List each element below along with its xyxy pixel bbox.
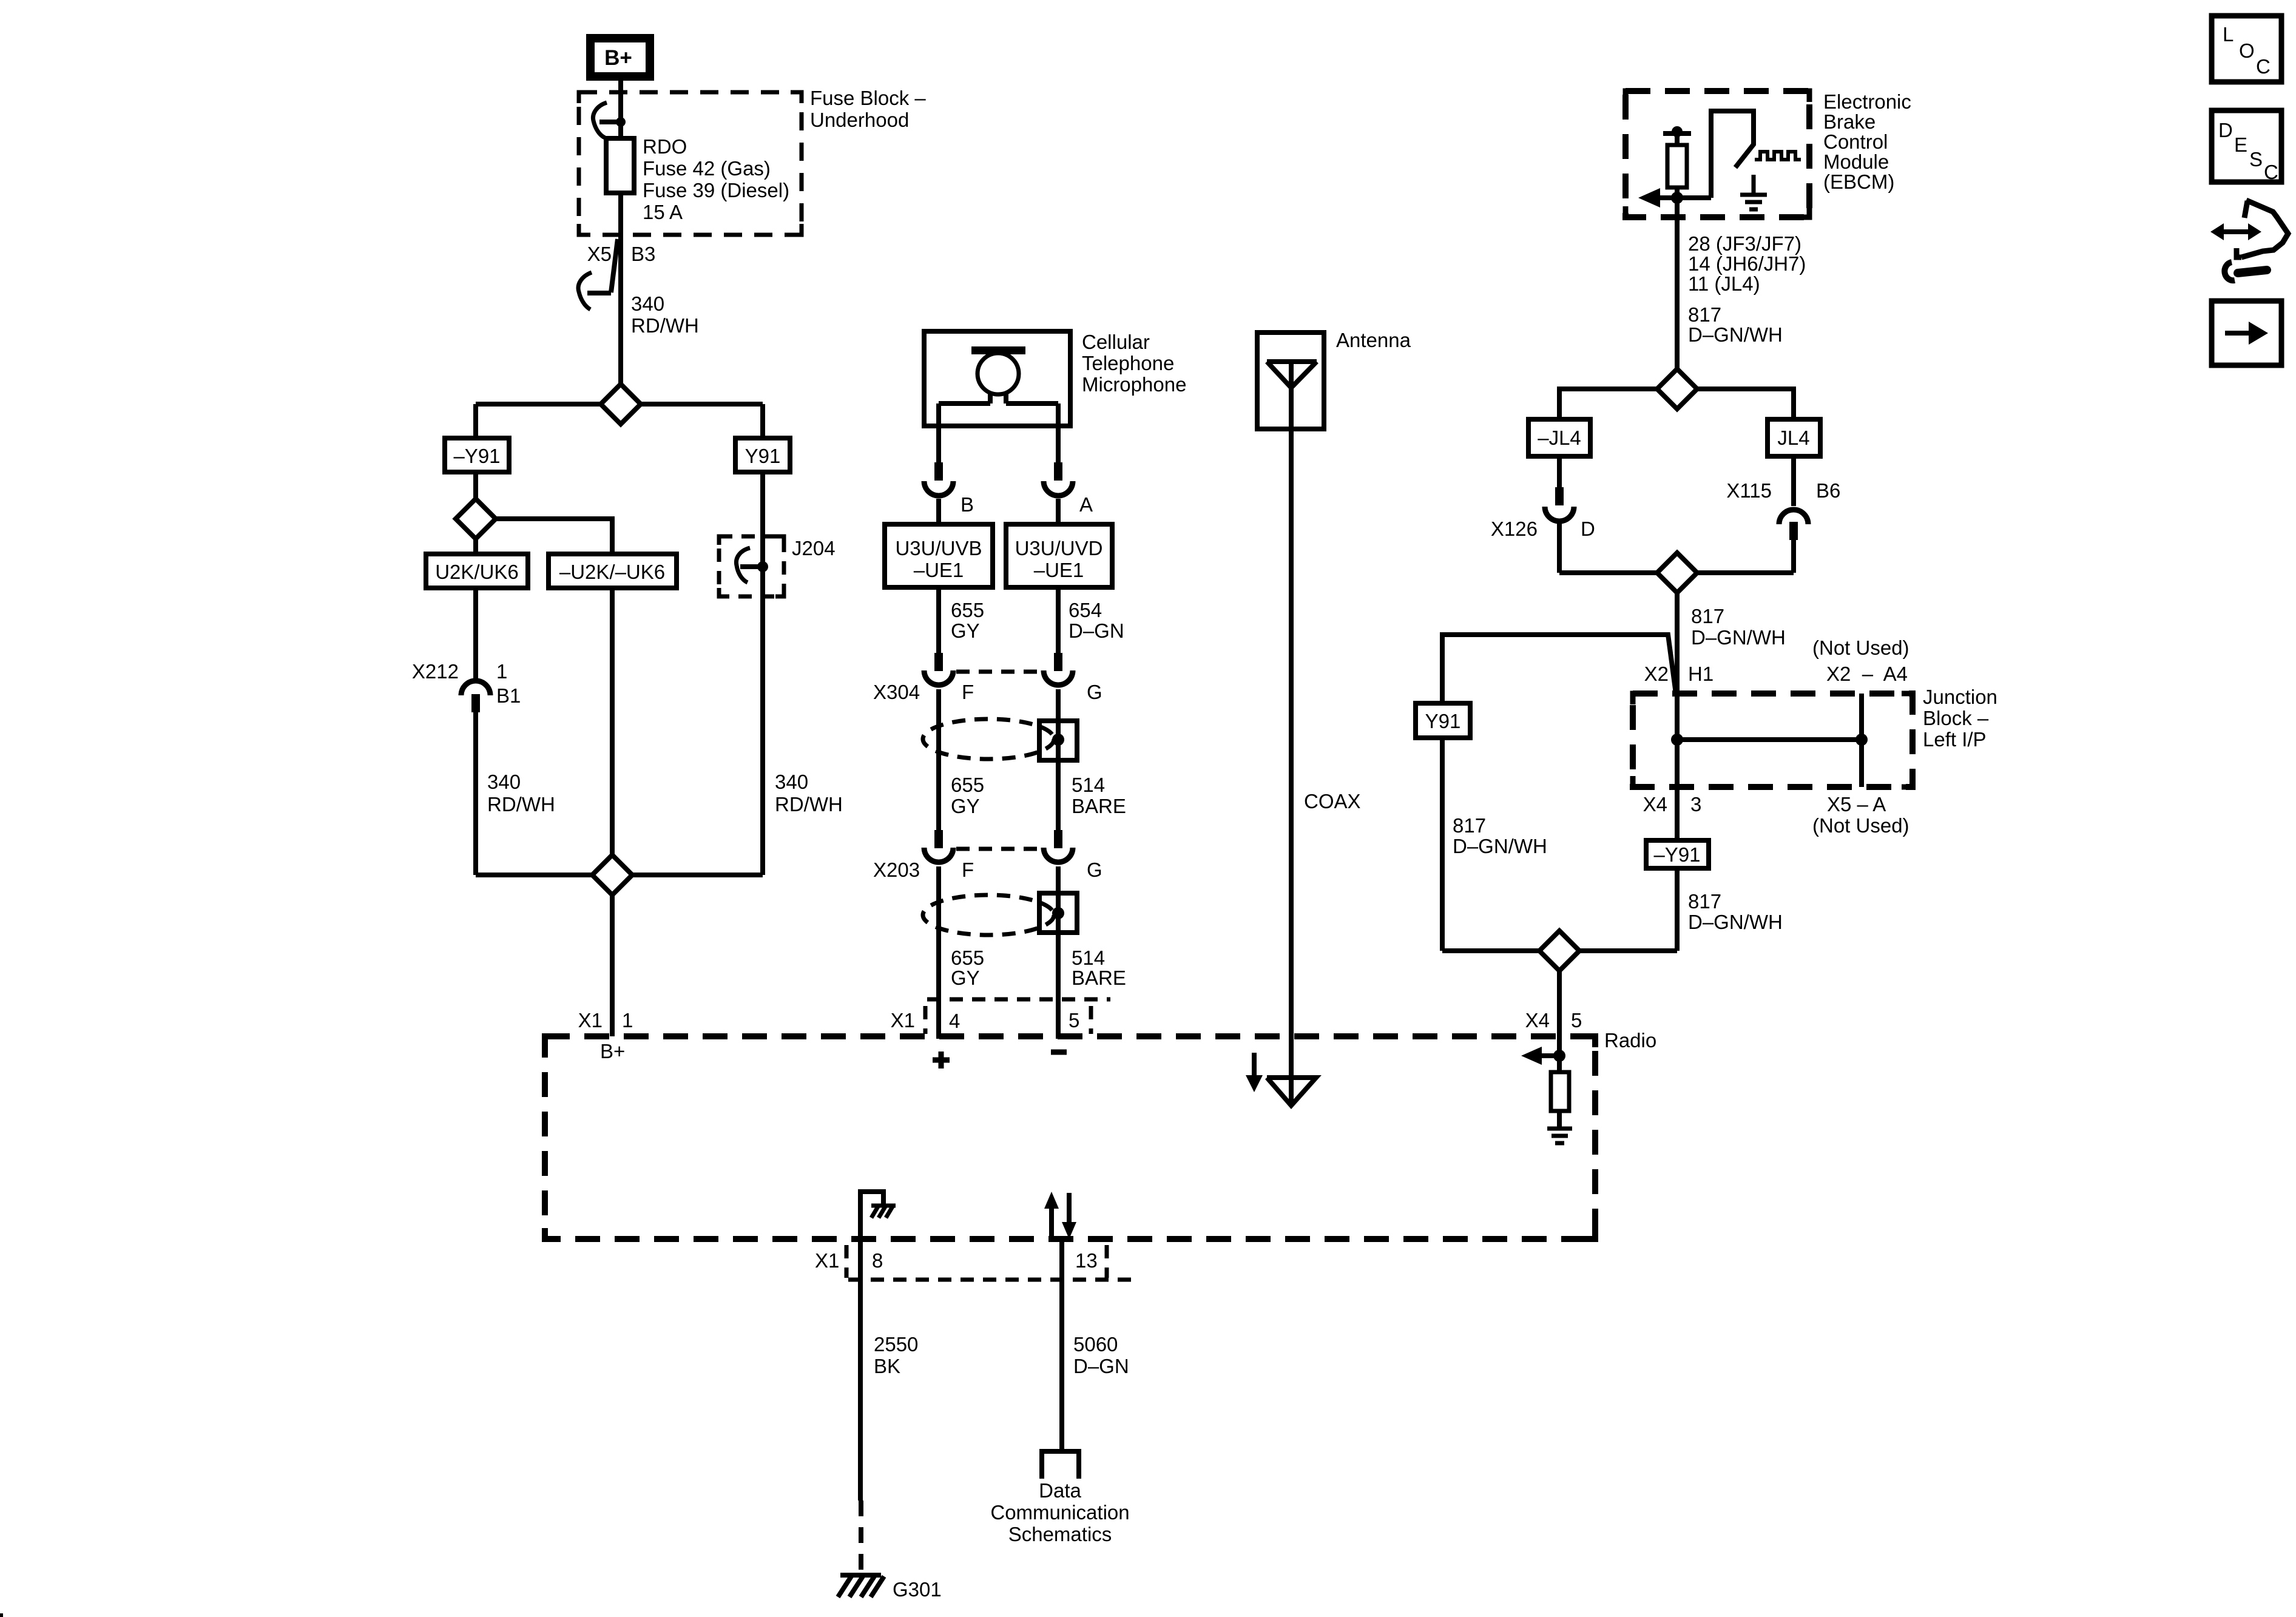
svg-text:–JL4: –JL4 (1538, 427, 1581, 449)
svg-text:H1: H1 (1688, 663, 1714, 685)
svg-text:B+: B+ (604, 46, 632, 70)
Antenna box (1257, 333, 1324, 429)
wire junction block to -Y91 (1675, 740, 1680, 840)
DESC nav box (2212, 110, 2281, 183)
svg-text:817: 817 (1453, 814, 1486, 837)
svg-text:F: F (962, 859, 974, 881)
svg-text:11 (JL4): 11 (JL4) (1688, 272, 1760, 295)
connector X2 cavity H1 labels (1644, 663, 1714, 685)
wire 340 RD/WH labels (487, 771, 843, 815)
EBCM internal ground (1740, 175, 1767, 209)
svg-text:D–GN: D–GN (1069, 619, 1124, 642)
svg-text:J204: J204 (792, 537, 836, 559)
wire 655 GY lower labels (951, 947, 984, 989)
wire Y91 to J204 to bottom (760, 472, 765, 875)
connector X203 pin F (924, 830, 953, 862)
connector X304 strip (956, 670, 1042, 674)
wire Y91 down (1440, 738, 1445, 951)
svg-text:S: S (2249, 148, 2263, 170)
svg-text:B: B (961, 493, 974, 516)
wire S4 branches (1559, 389, 1794, 419)
wire -Y91 to S6 (1675, 868, 1680, 951)
svg-text:1: 1 (496, 660, 507, 683)
EBCM pin labels 28 14 11 (1688, 232, 1806, 295)
svg-text:Fuse 39 (Diesel): Fuse 39 (Diesel) (643, 179, 789, 201)
svg-text:B+: B+ (600, 1040, 625, 1062)
EBCM switch (1711, 111, 1754, 198)
svg-text:Fuse 42 (Gas): Fuse 42 (Gas) (643, 157, 771, 180)
connector mic pin B (924, 462, 974, 516)
option box -Y91 lower (1646, 840, 1709, 868)
svg-text:X1: X1 (815, 1249, 839, 1272)
option box -U2K/-UK6 (549, 554, 677, 588)
wire 817 D-GN/WH label upper (1688, 303, 1783, 346)
shield box upper (1039, 721, 1077, 760)
svg-text:8: 8 (872, 1249, 883, 1272)
Cellular Telephone Microphone box (924, 331, 1070, 426)
splice pack J204 (719, 536, 836, 596)
svg-text:D–GN/WH: D–GN/WH (1688, 323, 1783, 346)
radio internal resistor (1551, 1056, 1569, 1127)
connector X5 cavity B3 (578, 239, 655, 309)
svg-text:X1: X1 (891, 1009, 915, 1031)
svg-text:B1: B1 (496, 684, 521, 707)
svg-text:BARE: BARE (1072, 967, 1126, 989)
svg-text:X5 – A: X5 – A (1827, 793, 1886, 815)
wire B to option box (936, 499, 941, 524)
connector X4 pin 5 labels (1525, 1009, 1582, 1031)
svg-text:5: 5 (1571, 1009, 1582, 1031)
wire G drain to X203 (1056, 689, 1061, 830)
svg-text:654: 654 (1069, 599, 1102, 621)
option box -JL4 (1528, 419, 1590, 456)
wire 655 GY mid labels (951, 774, 984, 817)
splice diamond S5 (1657, 553, 1697, 593)
svg-text:GY: GY (951, 967, 980, 989)
wire COAX (1291, 362, 1361, 1106)
radio box corner ticks (545, 1036, 1595, 1239)
svg-text:B6: B6 (1816, 479, 1840, 502)
connector X203 pin G (1044, 830, 1073, 862)
label X5-A not used (1812, 793, 1909, 837)
connector X1 strip pins 8 13 (815, 1245, 1131, 1280)
wire B+ to fuse block (618, 79, 623, 384)
splice diamond S4 (1657, 369, 1697, 409)
wire G drain to radio (1056, 866, 1061, 1039)
svg-text:BARE: BARE (1072, 795, 1126, 817)
label X2-A4 not used (1812, 636, 1909, 685)
svg-text:Fuse Block –: Fuse Block – (810, 87, 926, 109)
EBCM output arrow (1638, 188, 1660, 208)
option box Y91 (735, 438, 790, 472)
wire A to option box (1056, 499, 1061, 524)
svg-text:14 (JH6/JH7): 14 (JH6/JH7) (1688, 252, 1806, 275)
svg-text:B3: B3 (631, 243, 655, 265)
svg-text:X2 – A4: X2 – A4 (1826, 663, 1908, 685)
svg-text:O: O (2239, 39, 2255, 62)
svg-text:Radio: Radio (1604, 1029, 1656, 1052)
svg-text:655: 655 (951, 599, 984, 621)
wire 514 BARE labels (1072, 774, 1126, 817)
option box Y91 left (1416, 703, 1470, 738)
svg-text:RD/WH: RD/WH (487, 793, 555, 815)
splice diamond S3 (592, 855, 632, 895)
svg-text:817: 817 (1688, 890, 1721, 913)
Electronic Brake Control Module dashed box (1626, 91, 1809, 217)
splice diamond S2 (456, 499, 496, 539)
svg-text:–UE1: –UE1 (914, 559, 964, 581)
connector X304 pin F (924, 653, 953, 685)
wire 817 D-GN/WH label left (1453, 814, 1547, 857)
wire 2550 BK (860, 1238, 918, 1501)
svg-text:Antenna: Antenna (1336, 329, 1411, 351)
svg-text:655: 655 (951, 774, 984, 796)
svg-text:D–GN/WH: D–GN/WH (1691, 626, 1786, 649)
svg-text:X2: X2 (1644, 663, 1669, 685)
J204 box corner ticks (719, 536, 784, 596)
svg-text:514: 514 (1072, 774, 1105, 796)
data link arrows at radio pin 13 (1044, 1192, 1076, 1239)
wire S2 branch to -U2K (476, 519, 612, 554)
wire -JL4 to X126 (1557, 456, 1562, 487)
svg-text:340: 340 (487, 771, 521, 793)
svg-text:X304: X304 (873, 681, 920, 703)
svg-text:Junction: Junction (1923, 686, 1997, 708)
svg-text:D: D (1581, 518, 1595, 540)
svg-text:5: 5 (1069, 1009, 1079, 1031)
splice diamond S1 (601, 384, 641, 424)
net label B+ at radio (600, 1040, 625, 1062)
EBCM box corner ticks (1626, 91, 1809, 217)
option box U2K/UK6 (426, 554, 528, 588)
svg-text:JL4: JL4 (1777, 427, 1809, 449)
wire 654 D-GN (1058, 587, 1124, 653)
connector X203 strip (956, 847, 1042, 851)
svg-text:340: 340 (631, 292, 664, 315)
radio internal ground (1547, 1129, 1572, 1143)
svg-text:Module: Module (1823, 150, 1889, 173)
svg-text:(Not Used): (Not Used) (1812, 814, 1909, 837)
wire mic B lead (936, 403, 941, 462)
option box U3U/UVB -UE1 (885, 524, 993, 587)
fuse block corner ticks (579, 92, 802, 235)
svg-text:L: L (2223, 23, 2234, 46)
connector X115 cavity B6 (1726, 479, 1840, 540)
antenna ground triangle in radio (1267, 1078, 1316, 1106)
svg-text:(Not Used): (Not Used) (1812, 636, 1909, 659)
Junction Block - Left I/P dashed box (1633, 694, 1913, 787)
svg-text:X126: X126 (1491, 518, 1538, 540)
wire 817 D-GN/WH from EBCM (1675, 198, 1680, 369)
svg-text:Data: Data (1039, 1479, 1081, 1502)
svg-text:817: 817 (1688, 303, 1721, 326)
wire F to X203 (936, 689, 941, 830)
wire 817 D-GN/WH label mid (1691, 605, 1786, 649)
svg-text:Brake: Brake (1823, 110, 1876, 133)
svg-text:G: G (1087, 859, 1102, 881)
svg-text:D–GN/WH: D–GN/WH (1453, 835, 1547, 857)
fuse RDO Fuse 42 (Gas) / Fuse 39 (Diesel) 15 A (606, 135, 789, 223)
svg-text:U3U/UVD: U3U/UVD (1015, 537, 1103, 559)
connector X304 labels (873, 681, 1102, 703)
Radio dashed box (545, 1029, 1656, 1239)
svg-text:2550: 2550 (874, 1333, 918, 1355)
connector X304 pin G (1044, 653, 1073, 685)
svg-text:Underhood: Underhood (810, 109, 909, 131)
svg-text:G: G (1087, 681, 1102, 703)
Junction Block label (1923, 686, 1997, 751)
junction block internal bus (1671, 694, 1868, 787)
wire JL4 to X115 (1791, 456, 1796, 506)
svg-text:4: 4 (949, 1010, 960, 1032)
coax shield drain arrow (1246, 1053, 1263, 1092)
svg-text:RDO: RDO (643, 135, 687, 158)
antenna symbol (1267, 362, 1317, 388)
connector X203 labels (873, 859, 1102, 881)
svg-text:340: 340 (775, 771, 808, 793)
svg-text:655: 655 (951, 947, 984, 969)
svg-text:(EBCM): (EBCM) (1823, 170, 1894, 193)
fuse block feed hook terminal (593, 103, 626, 138)
connector X4 cavity 3 labels (1643, 793, 1702, 815)
wire bottom collector (476, 873, 763, 877)
svg-text:Left I/P: Left I/P (1923, 728, 1987, 751)
option box -Y91 (445, 438, 509, 472)
svg-text:GY: GY (951, 795, 980, 817)
wire -Y91 to diamond (473, 472, 478, 499)
svg-text:G301: G301 (893, 1578, 942, 1601)
wire X126 to S5 (1557, 524, 1562, 573)
svg-text:X1: X1 (578, 1009, 603, 1031)
wire 5060 D-GN (1062, 1238, 1129, 1451)
svg-text:X203: X203 (873, 859, 920, 881)
splice diamond S6 (1539, 931, 1579, 971)
svg-text:15 A: 15 A (643, 201, 683, 223)
page corner mark (0, 1613, 3, 1617)
svg-text:D: D (2218, 119, 2233, 141)
svg-text:Block –: Block – (1923, 707, 1989, 729)
microphone symbol (939, 346, 1058, 403)
svg-text:RD/WH: RD/WH (775, 793, 843, 815)
svg-text:X4: X4 (1525, 1009, 1550, 1031)
Fuse Block label (810, 87, 926, 131)
option box JL4 (1768, 419, 1820, 456)
svg-text:Y91: Y91 (745, 445, 781, 467)
connector X126 cavity D (1491, 487, 1595, 540)
ground symbol radio internal X1-8 (860, 1192, 896, 1238)
svg-text:13: 13 (1075, 1249, 1098, 1272)
svg-text:Y91: Y91 (1425, 710, 1461, 732)
wire S5 collector (1559, 570, 1794, 575)
next page arrow box (2212, 301, 2281, 365)
LOC nav box (2212, 16, 2281, 82)
wire Y91 branch top (1442, 635, 1676, 704)
svg-text:–Y91: –Y91 (1653, 843, 1700, 866)
svg-text:U3U/UVB: U3U/UVB (895, 537, 982, 559)
junction block corner ticks (1633, 694, 1913, 787)
wire splice horizontal (476, 404, 763, 438)
connector mic pin A (1044, 462, 1093, 516)
EBCM label (1823, 90, 1911, 193)
svg-text:RD/WH: RD/WH (631, 314, 699, 337)
svg-text:514: 514 (1072, 947, 1105, 969)
svg-text:–U2K/–UK6: –U2K/–UK6 (559, 561, 665, 583)
svg-text:1: 1 (622, 1009, 633, 1031)
svg-text:X115: X115 (1726, 479, 1772, 502)
svg-text:28 (JF3/JF7): 28 (JF3/JF7) (1688, 232, 1801, 255)
EBCM internal node wire (1659, 187, 1711, 204)
wire 514 BARE lower labels (1072, 947, 1126, 989)
wire S6 collector (1442, 948, 1677, 953)
connector label X1 pin 1 (578, 1009, 633, 1031)
svg-text:C: C (2264, 161, 2278, 183)
svg-text:U2K/UK6: U2K/UK6 (435, 561, 519, 583)
Antenna label (1336, 329, 1411, 351)
svg-text:817: 817 (1691, 605, 1724, 627)
svg-text:–UE1: –UE1 (1034, 559, 1084, 581)
EBCM PWM signal (1755, 152, 1801, 160)
svg-text:Schematics: Schematics (1008, 1523, 1112, 1545)
svg-text:5060: 5060 (1073, 1333, 1118, 1355)
svg-text:D–GN: D–GN (1073, 1355, 1129, 1377)
wire 340 RD/WH label (631, 292, 699, 337)
svg-text:F: F (962, 681, 974, 703)
net label - microphone negative (1051, 1050, 1067, 1055)
svg-text:BK: BK (874, 1355, 900, 1377)
wire S3 to radio X1-1 (610, 895, 615, 1036)
wire X115 to S5 (1791, 540, 1796, 573)
svg-text:Communication: Communication (990, 1501, 1129, 1524)
connector X1 strip pins 4 5 (891, 999, 1110, 1034)
wire 817 to junction block (1675, 593, 1680, 740)
twisted pair loop upper (923, 719, 1054, 759)
svg-text:A: A (1079, 493, 1093, 516)
wire 655 GY upper (939, 587, 984, 653)
wire mic A lead (1056, 403, 1061, 462)
EBCM resistor (1667, 145, 1687, 187)
svg-text:Cellular: Cellular (1082, 331, 1150, 353)
off-page connector Data Communication Schematics (990, 1451, 1129, 1545)
battery B+ terminal box (586, 34, 654, 81)
svg-text:COAX: COAX (1304, 790, 1361, 812)
radio internal mute arrow (1521, 1047, 1565, 1065)
svg-text:X4: X4 (1643, 793, 1667, 815)
wire U2K down to X212 (473, 588, 478, 678)
svg-text:X5: X5 (587, 243, 612, 265)
wire 340 RD/WH to bottom splice (476, 588, 612, 875)
option box U3U/UVD -UE1 (1006, 524, 1112, 587)
shield box lower (1039, 893, 1077, 933)
ground G301 (838, 1575, 942, 1601)
svg-text:D–GN/WH: D–GN/WH (1688, 911, 1783, 933)
twisted pair loop lower (923, 895, 1054, 935)
wire F to radio (936, 866, 941, 1039)
svg-text:3: 3 (1690, 793, 1701, 815)
connector X212 cavity 1 B1 (412, 660, 521, 712)
svg-text:Telephone: Telephone (1082, 352, 1174, 374)
svg-text:Microphone: Microphone (1082, 373, 1186, 396)
EBCM internal pullup supply tap (1663, 126, 1691, 145)
svg-text:E: E (2234, 133, 2247, 156)
svg-text:Control: Control (1823, 130, 1888, 153)
net label + microphone positive (933, 1052, 950, 1068)
svg-text:–Y91: –Y91 (453, 445, 500, 467)
wire dashed to G301 (859, 1501, 863, 1571)
svg-text:X212: X212 (412, 660, 459, 683)
svg-text:GY: GY (951, 619, 980, 642)
wire 817 D-GN/WH label lower right (1688, 890, 1783, 933)
wire S6 to radio X4-5 (1557, 971, 1562, 1056)
Cellular Telephone Microphone label (1082, 331, 1186, 396)
svg-text:Electronic: Electronic (1823, 90, 1911, 113)
Fuse Block - Underhood dashed box (579, 92, 802, 235)
repair tool icon (2210, 200, 2288, 280)
svg-text:C: C (2256, 55, 2271, 78)
